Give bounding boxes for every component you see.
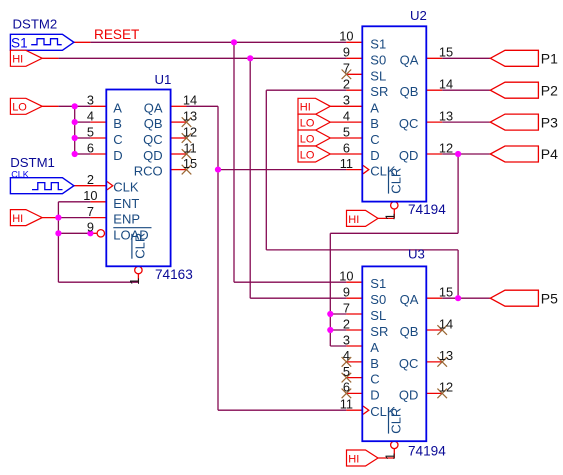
svg-text:U1: U1 [155,72,172,87]
svg-text:HI: HI [300,102,311,114]
svg-text:11: 11 [340,397,353,412]
svg-text:9: 9 [343,45,350,60]
svg-text:P5: P5 [541,290,558,306]
svg-text:13: 13 [439,348,453,363]
svg-text:QB: QB [400,84,419,99]
svg-text:74194: 74194 [408,202,446,217]
svg-text:LO: LO [300,118,315,130]
svg-text:11: 11 [340,156,353,171]
svg-text:1: 1 [382,453,397,460]
svg-text:10: 10 [339,29,353,44]
svg-text:2: 2 [343,77,350,92]
svg-text:CLR: CLR [132,233,147,259]
svg-text:5: 5 [343,364,350,379]
svg-text:5: 5 [343,124,350,139]
svg-text:SL: SL [370,68,386,83]
svg-text:CLR: CLR [389,168,404,194]
svg-text:11: 11 [183,140,196,155]
svg-text:B: B [370,356,379,371]
svg-text:7: 7 [87,204,94,219]
svg-text:A: A [370,100,379,115]
svg-text:QA: QA [144,100,163,115]
svg-text:9: 9 [343,285,350,300]
svg-text:QB: QB [400,324,419,339]
svg-text:14: 14 [439,316,453,331]
svg-text:SR: SR [370,324,388,339]
svg-text:QD: QD [143,148,163,163]
svg-text:12: 12 [183,124,197,139]
svg-text:SL: SL [370,308,386,323]
svg-text:7: 7 [343,61,350,76]
svg-text:3: 3 [343,332,350,347]
svg-text:RESET: RESET [94,27,139,42]
svg-text:6: 6 [87,140,94,155]
svg-text:D: D [370,148,379,163]
svg-text:7: 7 [343,300,350,315]
svg-text:HI: HI [12,213,23,225]
svg-text:LO: LO [300,149,315,161]
svg-text:QC: QC [399,116,419,131]
svg-text:13: 13 [439,108,453,123]
svg-text:QD: QD [399,148,419,163]
svg-text:S0: S0 [370,52,386,67]
svg-text:U2: U2 [410,8,427,23]
svg-text:14: 14 [183,93,197,108]
svg-text:6: 6 [343,140,350,155]
svg-text:C: C [113,132,122,147]
svg-text:10: 10 [83,188,97,203]
svg-text:LO: LO [12,102,27,114]
svg-text:A: A [370,340,379,355]
svg-text:HI: HI [348,214,359,226]
svg-text:P3: P3 [541,114,558,130]
svg-text:QD: QD [399,387,419,402]
svg-text:4: 4 [343,348,350,363]
svg-text:14: 14 [439,77,453,92]
svg-text:D: D [370,387,379,402]
svg-text:74194: 74194 [408,444,446,459]
svg-text:RCO: RCO [134,164,163,179]
svg-text:5: 5 [87,124,94,139]
svg-text:74163: 74163 [155,267,193,282]
svg-text:12: 12 [439,140,453,155]
svg-text:S1: S1 [11,35,28,50]
svg-text:QC: QC [399,356,419,371]
svg-text:15: 15 [439,285,453,300]
svg-text:CLK: CLK [11,169,29,179]
svg-text:B: B [113,116,122,131]
svg-text:DSTM2: DSTM2 [13,17,58,32]
svg-text:B: B [370,116,379,131]
svg-text:1: 1 [383,213,398,220]
svg-text:10: 10 [339,269,353,284]
svg-text:S0: S0 [370,292,386,307]
svg-text:ENT: ENT [113,196,139,211]
svg-text:D: D [113,148,122,163]
svg-text:QC: QC [143,132,163,147]
svg-text:12: 12 [439,380,453,395]
svg-text:LO: LO [300,133,315,145]
svg-text:C: C [370,132,379,147]
svg-text:2: 2 [87,172,94,187]
svg-text:1: 1 [127,278,142,285]
svg-text:SR: SR [370,84,388,99]
svg-text:13: 13 [183,108,197,123]
svg-text:P2: P2 [541,82,558,98]
svg-text:3: 3 [87,93,94,108]
svg-text:HI: HI [348,453,359,465]
svg-text:P1: P1 [541,51,558,67]
svg-text:U3: U3 [408,246,425,261]
svg-text:A: A [113,100,122,115]
svg-text:2: 2 [343,316,350,331]
svg-text:QA: QA [400,292,419,307]
svg-text:DSTM1: DSTM1 [10,155,55,170]
svg-text:S1: S1 [370,276,386,291]
svg-text:HI: HI [12,54,23,66]
svg-text:CLK: CLK [113,180,139,195]
svg-text:15: 15 [183,156,197,171]
svg-text:QA: QA [400,52,419,67]
svg-text:C: C [370,372,379,387]
svg-text:15: 15 [439,45,453,60]
svg-text:CLR: CLR [389,408,404,434]
svg-text:S1: S1 [370,36,386,51]
svg-text:QB: QB [144,116,163,131]
svg-text:P4: P4 [541,146,558,162]
svg-text:6: 6 [343,380,350,395]
svg-text:4: 4 [87,108,94,123]
svg-text:ENP: ENP [113,212,140,227]
svg-text:3: 3 [343,93,350,108]
svg-text:4: 4 [343,108,350,123]
svg-text:9: 9 [87,220,94,235]
